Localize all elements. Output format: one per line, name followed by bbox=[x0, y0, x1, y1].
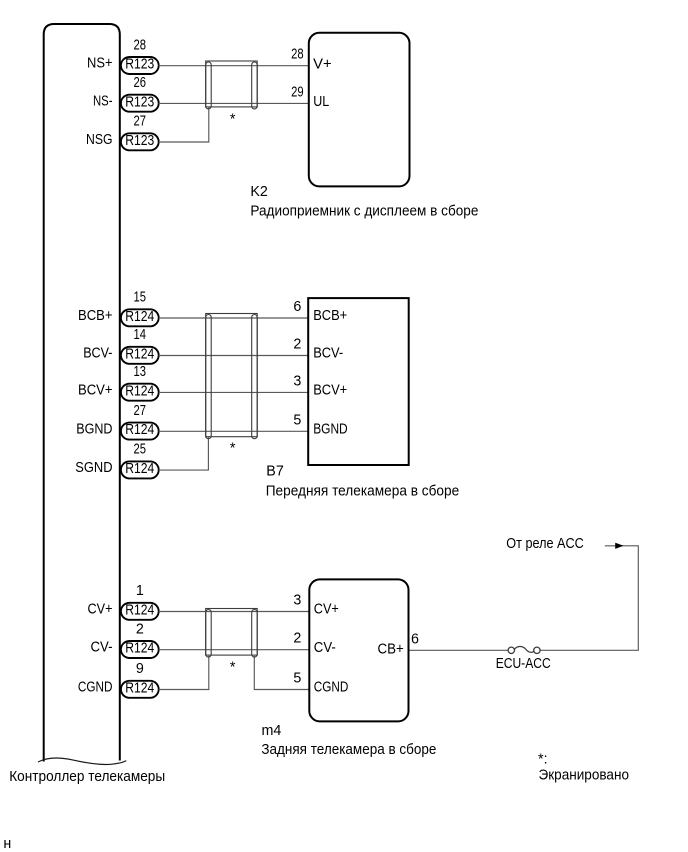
shield box outline bbox=[206, 609, 258, 656]
controller block (left ECU rectangle) bbox=[44, 24, 120, 762]
svg-text:R124: R124 bbox=[125, 309, 154, 325]
shield left capsule bbox=[206, 62, 212, 109]
connector oval R124 (BCV-) bbox=[121, 347, 159, 364]
svg-text:BCB+: BCB+ bbox=[78, 308, 113, 324]
wire CV- bbox=[159, 649, 310, 651]
connector ECU-ACC circle left bbox=[508, 647, 514, 653]
svg-text:R124: R124 bbox=[125, 422, 154, 438]
svg-text:6: 6 bbox=[293, 299, 301, 315]
svg-text:6: 6 bbox=[411, 632, 419, 648]
svg-text:*: * bbox=[230, 660, 236, 676]
svg-text:28: 28 bbox=[134, 37, 147, 53]
wire NSG shield drain bbox=[159, 108, 209, 143]
svg-text:NS+: NS+ bbox=[87, 56, 113, 72]
svg-text:R124: R124 bbox=[125, 641, 154, 657]
svg-text:1: 1 bbox=[136, 583, 144, 599]
svg-text:NSG: NSG bbox=[86, 132, 113, 148]
svg-text:CGND: CGND bbox=[314, 680, 349, 696]
svg-text:BCB+: BCB+ bbox=[313, 308, 347, 324]
svg-text:BCV+: BCV+ bbox=[78, 382, 113, 398]
shield left capsule bbox=[206, 610, 212, 658]
svg-text:27: 27 bbox=[134, 114, 147, 130]
svg-text:m4: m4 bbox=[262, 723, 282, 739]
connector oval R123 (NS-) bbox=[121, 95, 159, 112]
svg-text:Передняя телекамера в сборе: Передняя телекамера в сборе bbox=[266, 484, 460, 500]
svg-text:2: 2 bbox=[293, 337, 301, 353]
svg-text:BCV-: BCV- bbox=[83, 346, 113, 362]
svg-text:CV+: CV+ bbox=[314, 602, 339, 618]
svg-text:Задняя телекамера в сборе: Задняя телекамера в сборе bbox=[261, 742, 436, 758]
shield box outline bbox=[206, 61, 258, 107]
wire CV+ bbox=[159, 611, 310, 613]
svg-text:14: 14 bbox=[134, 327, 147, 343]
svg-text:Радиоприемник с дисплеем в сбо: Радиоприемник с дисплеем в сборе bbox=[250, 204, 478, 220]
svg-text:CGND: CGND bbox=[78, 680, 113, 696]
svg-text:Контроллер телекамеры: Контроллер телекамеры bbox=[9, 769, 165, 785]
connector oval R124 (CGND) bbox=[121, 681, 159, 698]
connector ECU-ACC circle right bbox=[534, 647, 540, 653]
svg-text:R124: R124 bbox=[125, 461, 154, 477]
svg-text:5: 5 bbox=[293, 412, 301, 428]
shield right capsule bbox=[252, 610, 258, 658]
svg-text:V+: V+ bbox=[313, 56, 332, 72]
svg-text:B7: B7 bbox=[266, 464, 284, 480]
svg-text:28: 28 bbox=[291, 47, 304, 63]
svg-text:26: 26 bbox=[134, 75, 147, 91]
wire NS- (pin 26 to K2 UL) bbox=[159, 102, 309, 104]
wire ECU-ACC to ACC relay corner bbox=[540, 546, 638, 651]
wire CB+ (m4 to ECU-ACC connector) bbox=[409, 649, 509, 651]
svg-text:BCV+: BCV+ bbox=[313, 383, 347, 399]
wire BCV+ bbox=[159, 391, 309, 393]
svg-text:ECU-ACC: ECU-ACC bbox=[496, 656, 551, 672]
svg-text:CV-: CV- bbox=[91, 640, 113, 656]
svg-text:н: н bbox=[3, 836, 11, 852]
svg-text:BGND: BGND bbox=[313, 422, 348, 438]
svg-text:R124: R124 bbox=[125, 346, 154, 362]
svg-text:CV-: CV- bbox=[314, 640, 336, 656]
connector oval R124 (SGND) bbox=[121, 461, 159, 478]
svg-text:2: 2 bbox=[293, 631, 301, 647]
svg-text:*: * bbox=[230, 111, 236, 127]
connector oval R124 (BCV+) bbox=[121, 384, 159, 401]
connector oval R124 (CV-) bbox=[121, 641, 159, 658]
connector oval R124 (BGND) bbox=[121, 423, 159, 440]
svg-text:BGND: BGND bbox=[76, 421, 112, 437]
connector oval R124 (CV+) bbox=[121, 603, 159, 620]
block m4 (rear camera) bbox=[309, 579, 408, 721]
svg-text:R124: R124 bbox=[125, 602, 154, 618]
svg-text:R123: R123 bbox=[125, 133, 154, 149]
svg-text:От реле ACC: От реле ACC bbox=[506, 536, 584, 552]
svg-text:13: 13 bbox=[134, 364, 147, 380]
svg-text:9: 9 bbox=[136, 661, 144, 677]
svg-text:3: 3 bbox=[293, 593, 301, 609]
svg-text:R124: R124 bbox=[125, 383, 154, 399]
wire BCV- bbox=[159, 355, 309, 357]
shield box outline bbox=[206, 314, 258, 437]
connector oval R123 (NSG) bbox=[121, 133, 159, 150]
arrowhead (from ACC relay) bbox=[616, 543, 623, 548]
svg-text:R123: R123 bbox=[125, 94, 154, 110]
svg-text:CB+: CB+ bbox=[378, 641, 404, 657]
svg-text:25: 25 bbox=[134, 442, 147, 458]
wire NS+ (pin 28 to K2 V+) bbox=[159, 65, 309, 67]
svg-text:3: 3 bbox=[293, 373, 301, 389]
block B7 (front camera) bbox=[308, 298, 409, 465]
svg-text:R123: R123 bbox=[125, 57, 154, 73]
svg-text:K2: K2 bbox=[250, 184, 268, 200]
block K2 (radio with display) bbox=[309, 33, 410, 187]
svg-text:SGND: SGND bbox=[75, 460, 112, 476]
connector ECU-ACC wave bbox=[514, 647, 534, 653]
wire CGND shield drain (right, to m4 pin 5) bbox=[254, 656, 309, 690]
svg-text:CV+: CV+ bbox=[88, 602, 113, 618]
svg-text:15: 15 bbox=[134, 290, 147, 306]
svg-text:UL: UL bbox=[313, 94, 329, 110]
shield right capsule bbox=[252, 62, 258, 109]
svg-text:BCV-: BCV- bbox=[313, 346, 343, 362]
connector oval R123 (NS+) bbox=[121, 57, 159, 74]
wire SGND shield drain bbox=[159, 437, 209, 470]
svg-text:*:: *: bbox=[538, 752, 548, 768]
svg-text:27: 27 bbox=[134, 403, 147, 419]
wire CGND shield drain (left) bbox=[159, 656, 209, 690]
svg-text:*: * bbox=[230, 441, 236, 457]
controller bottom break (wavy line) bbox=[38, 758, 126, 764]
svg-text:R124: R124 bbox=[125, 680, 154, 696]
connector oval R124 (BCB+) bbox=[121, 309, 159, 326]
svg-text:NS-: NS- bbox=[93, 93, 113, 109]
svg-text:5: 5 bbox=[293, 671, 301, 687]
svg-text:Экранировано: Экранировано bbox=[539, 768, 630, 784]
svg-text:29: 29 bbox=[291, 84, 304, 100]
shield left capsule bbox=[206, 315, 212, 439]
wire BCB+ bbox=[159, 317, 309, 319]
shield right capsule bbox=[252, 315, 258, 439]
svg-text:2: 2 bbox=[136, 621, 144, 637]
wire BGND bbox=[159, 430, 309, 432]
